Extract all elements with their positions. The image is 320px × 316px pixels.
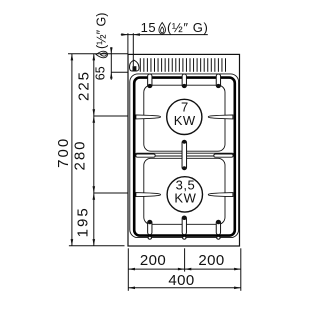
dim line 400 [128, 287, 241, 289]
grate feet [148, 236, 151, 239]
grate frame thick rail [134, 78, 235, 236]
dim line 700 [71, 54, 73, 246]
tick 65 bottom [111, 71, 128, 73]
svg-text:200: 200 [198, 252, 224, 269]
dim line 65 [110, 47, 112, 80]
bottom extension middle [184, 248, 186, 271]
burner 1 well outline [144, 85, 225, 151]
svg-text:(½″ G): (½″ G) [94, 13, 108, 49]
svg-text:200: 200 [140, 252, 166, 269]
svg-text:225: 225 [76, 70, 93, 101]
left gas note flame [94, 13, 108, 58]
svg-text:65: 65 [93, 66, 107, 80]
bottom extension left [127, 248, 129, 290]
top dim line 15 [121, 34, 208, 36]
top gas note flame [159, 23, 166, 35]
grate outer thin outline [130, 74, 239, 238]
svg-text:(½″ G): (½″ G) [167, 20, 208, 35]
gas inlet symbol [129, 60, 139, 71]
svg-text:700: 700 [55, 137, 72, 168]
bottom extension right [240, 248, 242, 290]
bar end finger right [214, 154, 233, 157]
top tick appliance edge [127, 33, 129, 54]
middle cross bar [136, 153, 234, 156]
burner 2 east prong [208, 193, 233, 197]
burner 2 well outline [144, 158, 225, 224]
tick burner1 center [94, 115, 128, 117]
center shared prong [182, 140, 187, 169]
burner 2 circle 3.5KW [167, 177, 202, 212]
burner 1 east prong [208, 115, 233, 119]
bottom extension line [69, 245, 125, 247]
top extension line [68, 53, 128, 55]
burner 1 north prongs [148, 74, 152, 88]
burner 2 south prongs [148, 220, 152, 234]
svg-text:15: 15 [141, 20, 157, 35]
prong tip caps [148, 84, 152, 88]
tick burner2 center [94, 192, 128, 194]
burner 2 west prong [136, 193, 161, 197]
svg-text:7: 7 [181, 99, 188, 114]
svg-text:195: 195 [74, 206, 91, 237]
dim line 200/200 [128, 268, 241, 270]
top leader to gas inlet [132, 33, 134, 66]
appliance body outline [128, 54, 240, 246]
svg-text:KW: KW [174, 113, 196, 128]
burner 1 circle 7KW [167, 99, 202, 134]
svg-text:280: 280 [72, 139, 89, 170]
dim chain line 225/280/195 [93, 54, 95, 246]
bar end finger left [136, 154, 155, 157]
burner 1 west prong [136, 115, 161, 119]
svg-text:400: 400 [168, 272, 194, 289]
vent grille hatch [140, 58, 225, 72]
svg-text:KW: KW [174, 191, 196, 206]
